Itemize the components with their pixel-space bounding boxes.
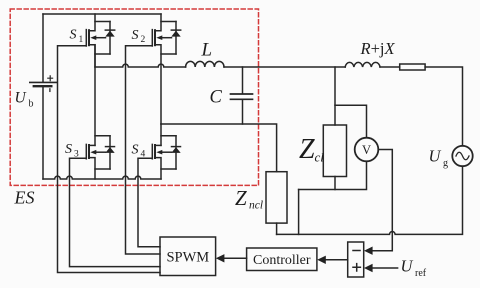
transistor S3 source [89, 158, 95, 179]
battery minus tick [49, 89, 51, 92]
svg-text:b: b [29, 99, 34, 110]
gate wire S3 to SPWM [70, 158, 161, 266]
transistor S4 drain tap [155, 144, 161, 146]
transistor S2 body arrow [156, 35, 171, 40]
wire: left leg S1 source to S3 drain (crosses mid rail junction) [94, 45, 96, 146]
wire: DC bottom rail with hops over gate wires [43, 176, 161, 179]
diode D3 loop bottom [95, 168, 110, 170]
voltmeter V circle [355, 138, 379, 162]
summing minus sign [353, 250, 360, 252]
gate wire S1 to SPWM [58, 46, 161, 273]
wire: DC top rail [43, 13, 161, 15]
inductor of R+jX [345, 62, 380, 67]
capacitor C bottom lead [242, 100, 244, 124]
gate wire S2 to SPWM [126, 46, 161, 254]
diode D3 triangle [105, 147, 114, 153]
wire: voltmeter sense to summing node [371, 150, 392, 251]
svg-text:S: S [132, 142, 139, 157]
diode D4 triangle [171, 147, 180, 153]
svg-text:U: U [15, 90, 28, 107]
source Ug sine wave [456, 152, 469, 160]
wire+arrow: Uref into summing plus [364, 264, 398, 272]
wire+arrow: summing to Controller [317, 256, 348, 264]
diode D2 triangle [171, 31, 180, 37]
transistor S3 channel bar [88, 145, 90, 158]
Zcl load box [323, 125, 346, 177]
wire: right leg S2 source through to S4 drain [160, 124, 162, 145]
transistor S2 source [155, 45, 161, 124]
svg-text:ES: ES [14, 188, 35, 208]
battery Ub plates [30, 81, 57, 83]
svg-text:S: S [65, 142, 72, 157]
transistor S1 channel bar [88, 30, 90, 45]
wire: Zcl/V bottom branch [299, 161, 367, 189]
svg-text:C: C [210, 87, 223, 107]
arrow: sense into summing minus [364, 247, 373, 255]
battery Ub top lead wire [42, 14, 44, 82]
diode D2 loop bottom [161, 53, 176, 55]
battery Ub bottom lead wire [42, 87, 44, 180]
svg-text:U: U [401, 257, 414, 276]
svg-text:SPWM: SPWM [166, 250, 209, 266]
svg-text:3: 3 [74, 149, 79, 159]
transistor S2 channel bar [154, 30, 156, 45]
capacitor C top lead [242, 67, 244, 94]
source Ug circle [452, 146, 472, 166]
diode D3 vertical [109, 136, 111, 169]
transistor S1 gate bar [85, 30, 87, 46]
svg-text:L: L [201, 39, 213, 60]
transistor S2 gate bar [151, 30, 153, 46]
diode D1 loop top [95, 21, 110, 23]
Zncl load box [266, 172, 287, 223]
svg-text:Z: Z [299, 134, 315, 165]
summing plus sign [353, 264, 360, 271]
inductor L coil [186, 61, 224, 67]
svg-text:2: 2 [141, 35, 146, 45]
wire: Zcl feed from line rail [334, 67, 336, 125]
Controller box [247, 248, 317, 271]
diode D1 vertical [109, 22, 111, 55]
diode D4 loop top [161, 135, 176, 137]
wire: ES output node to Zncl branch [161, 124, 277, 172]
transistor S4 body arrow [156, 150, 171, 155]
transistor S3 gate bar [85, 144, 87, 158]
svg-text:R+jX: R+jX [360, 39, 396, 58]
diode D1 triangle [105, 31, 114, 37]
svg-text:cl: cl [315, 150, 325, 165]
diode D2 cathode bar [171, 29, 180, 31]
capacitor C plates [231, 94, 253, 99]
transistor S4 gate bar [151, 144, 153, 158]
svg-text:ref: ref [415, 268, 427, 279]
svg-text:U: U [429, 147, 442, 166]
transistor S1 source [89, 45, 95, 67]
wire: rail from L to line node [224, 66, 345, 68]
svg-text:V: V [362, 143, 371, 157]
diode D2 loop top [161, 21, 176, 23]
svg-text:4: 4 [141, 150, 146, 160]
battery plus sign [48, 76, 53, 81]
wire: Zncl to AC bottom rail [276, 223, 278, 234]
diode D1 cathode bar [105, 29, 114, 31]
diode D3 loop top [95, 135, 110, 137]
transistor S1 body arrow [90, 35, 105, 40]
summing junction box [348, 242, 364, 277]
diode D4 cathode bar [172, 146, 181, 148]
transistor S1 drain [89, 14, 95, 31]
wire: AC mid rail from bridge left leg with hops, through inductor L [95, 64, 186, 67]
transistor S2 drain [155, 14, 161, 31]
wire+arrow: Controller to SPWM [216, 254, 247, 262]
SPWM box [160, 237, 216, 276]
wire: return drop to AC bottom rail [298, 190, 300, 235]
svg-text:S: S [132, 28, 139, 43]
wire: between line inductor and resistor [380, 66, 400, 68]
ES dashed boundary box [10, 9, 258, 185]
transistor S3 drain tap [89, 144, 95, 146]
svg-text:S: S [70, 28, 77, 43]
diode D1 loop bottom [95, 53, 110, 55]
transistor S3 body arrow [90, 150, 105, 155]
transistor S4 channel bar [154, 145, 156, 158]
resistor of R+jX [400, 64, 425, 70]
diode D4 vertical [175, 136, 177, 169]
wire: resistor to Ug corner [425, 67, 462, 146]
svg-text:ncl: ncl [249, 200, 263, 212]
svg-text:Z: Z [235, 186, 247, 210]
wire: Zcl/V top branch [335, 105, 367, 137]
transistor S4 source [155, 158, 161, 179]
svg-text:1: 1 [79, 35, 84, 45]
svg-text:g: g [443, 158, 448, 169]
Zcl bottom lead [334, 177, 336, 190]
wire: AC bottom rail with hop over sense wire, up to Ug [277, 166, 463, 234]
diode D2 vertical [175, 22, 177, 55]
diode D4 loop bottom [161, 168, 176, 170]
svg-text:Controller: Controller [253, 253, 311, 268]
gate wire S4 to SPWM [138, 158, 160, 247]
diode D3 cathode bar [106, 146, 115, 148]
